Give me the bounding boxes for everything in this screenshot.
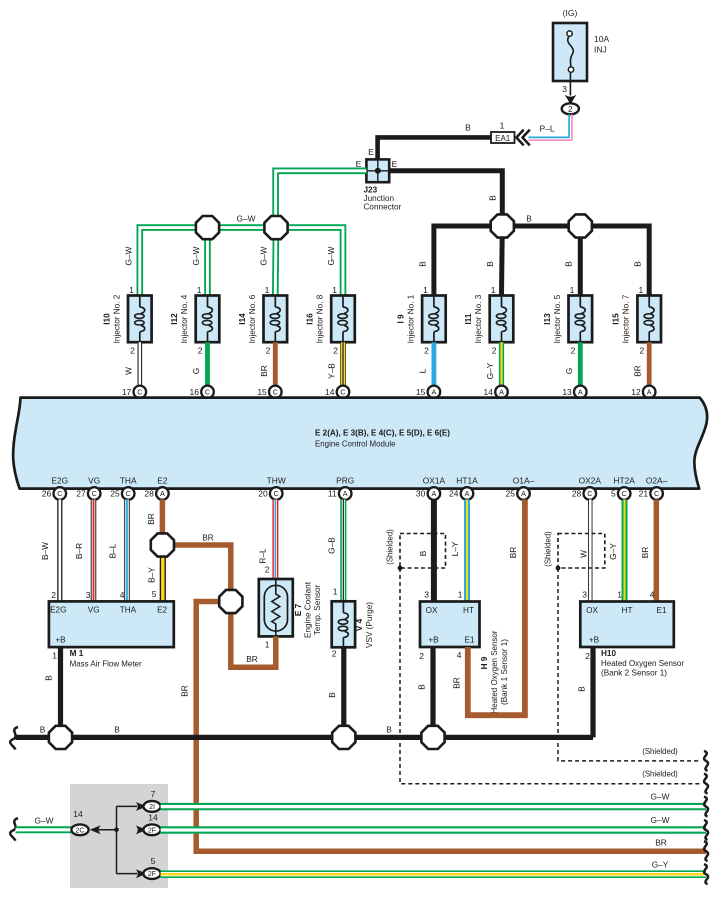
svg-text:16: 16 (190, 387, 200, 397)
heated oxygen sensor H9 box (419, 590, 479, 662)
wire G-Y from 2F to right edge (161, 860, 706, 875)
svg-text:1: 1 (129, 285, 134, 295)
svg-text:27: 27 (76, 489, 86, 499)
svg-text:G–W: G–W (237, 214, 256, 224)
ECM pin E2G label (51, 476, 68, 486)
label #1 (429, 400, 439, 410)
shield drain dashed wire H9 (400, 568, 700, 784)
svg-text:15: 15 (257, 387, 267, 397)
arrow down into connector 2 (565, 95, 577, 105)
svg-text:+B: +B (428, 636, 439, 645)
svg-text:2C: 2C (76, 827, 85, 834)
svg-text:BR: BR (246, 654, 258, 664)
svg-text:INJ: INJ (594, 45, 607, 55)
svg-text:VSV (Purge): VSV (Purge) (365, 602, 374, 648)
svg-text:2: 2 (265, 565, 270, 575)
svg-text:E1: E1 (464, 636, 474, 645)
svg-text:24: 24 (449, 489, 459, 499)
ground bus wire B (16, 725, 594, 738)
svg-text:C: C (57, 489, 62, 498)
svg-text:HT: HT (622, 606, 633, 615)
ECM pin THA label (120, 476, 137, 486)
svg-text:A: A (432, 489, 437, 498)
label #5 (576, 400, 586, 410)
svg-text:C: C (587, 489, 592, 498)
svg-text:H 9: H 9 (480, 656, 489, 669)
VSV purge valve V4 (332, 601, 355, 658)
svg-text:BR: BR (452, 677, 462, 689)
wire B OX1A to H9 pin 3 (418, 500, 434, 602)
injector I15 (Injector No. 7) (612, 285, 661, 356)
shield drain dashed wire H10 (558, 568, 700, 761)
ECM pin HT1A connector circle 24(A) (449, 487, 473, 500)
ECM pin OX1A connector circle 30(A) (416, 487, 440, 500)
svg-text:3: 3 (424, 590, 429, 600)
wire BR long drop to right edge (196, 838, 706, 852)
svg-text:2: 2 (332, 649, 337, 659)
svg-text:Temp. Sensor: Temp. Sensor (313, 584, 322, 635)
ECM pin HT1A label (456, 476, 478, 486)
label G-W (259, 246, 269, 265)
svg-text:11: 11 (328, 489, 337, 499)
svg-text:BR: BR (633, 365, 643, 377)
heated oxygen sensor H10 box (580, 590, 674, 662)
break symbol right end shielded 2 (704, 774, 708, 794)
svg-text:2: 2 (198, 346, 203, 356)
label #7 (644, 400, 654, 410)
svg-text:THW: THW (267, 476, 286, 486)
svg-text:E2: E2 (157, 606, 167, 615)
svg-text:2: 2 (639, 346, 644, 356)
svg-text:2: 2 (571, 346, 576, 356)
engine control module band (13, 398, 707, 489)
svg-text:17: 17 (122, 387, 132, 397)
svg-text:M 1: M 1 (70, 649, 84, 658)
svg-text:BR: BR (259, 365, 269, 377)
svg-text:A: A (647, 388, 652, 397)
svg-text:BR: BR (508, 547, 518, 559)
svg-text:14: 14 (148, 813, 158, 823)
svg-text:B: B (526, 214, 532, 224)
connector 2 (oval) (562, 103, 579, 114)
svg-text:2: 2 (568, 105, 573, 114)
wire G-W left to connector 2C (16, 816, 72, 830)
ECM pin OX1A label (423, 476, 446, 486)
wire BR node R2 down and to E7 pin 1 (231, 602, 276, 668)
svg-text:(Shielded): (Shielded) (642, 747, 678, 756)
injector I14 (Injector No. 6) (238, 285, 287, 356)
break symbol left end of G-W wire (10, 818, 18, 841)
svg-text:(Bank 2 Sensor 1): (Bank 2 Sensor 1) (601, 669, 667, 678)
shield box around OX1A wire (386, 529, 446, 568)
svg-text:E2: E2 (157, 476, 168, 486)
svg-text:Heated Oxygen Sensor: Heated Oxygen Sensor (601, 659, 684, 668)
svg-text:I11: I11 (464, 313, 473, 324)
injector I10 (Injector No. 2) (102, 285, 151, 356)
node N3 (octagon junction) (421, 726, 444, 749)
arrow left into connector 2C (90, 825, 117, 834)
ECM pin E2 label (157, 476, 168, 486)
svg-text:L–Y: L–Y (450, 541, 460, 556)
svg-text:E 2(A), E 3(B), E 4(C), E 5(D): E 2(A), E 3(B), E 4(C), E 5(D), E 6(E) (315, 428, 450, 438)
svg-text:5: 5 (151, 856, 156, 866)
svg-text:A: A (160, 489, 165, 498)
svg-text:B: B (465, 123, 471, 133)
svg-text:Engine Coolant: Engine Coolant (304, 581, 313, 638)
svg-text:A: A (465, 489, 470, 498)
svg-text:B: B (114, 725, 120, 735)
svg-text:C: C (340, 388, 345, 397)
shield box around OX2A wire (544, 531, 605, 568)
svg-text:B: B (577, 686, 587, 692)
svg-text:VG: VG (88, 476, 100, 486)
svg-text:12: 12 (631, 387, 641, 397)
wire P-L from connector 2 to EA1 (529, 114, 572, 140)
svg-text:B: B (418, 261, 428, 267)
svg-text:2: 2 (266, 346, 271, 356)
svg-text:E2G: E2G (50, 606, 66, 615)
ECM pin THW label (267, 476, 286, 486)
svg-text:C: C (126, 489, 131, 498)
svg-text:I16: I16 (306, 313, 315, 325)
arrow right into connector 2F pin 5 (136, 869, 147, 878)
svg-text:1: 1 (458, 590, 463, 600)
wire B M1 pin 1 to ground bus node N1 (44, 647, 61, 737)
svg-text:THA: THA (120, 606, 137, 615)
node R1 (octagon junction) (151, 533, 174, 556)
svg-text:OX: OX (426, 606, 438, 615)
svg-text:Injector No. 7: Injector No. 7 (622, 294, 631, 343)
shield drain dot H10 (556, 566, 561, 571)
svg-text:I 9: I 9 (396, 314, 405, 324)
ECM pin #6 connector circle 15(C) (257, 386, 281, 399)
svg-text:2: 2 (585, 651, 590, 661)
svg-text:14: 14 (484, 387, 494, 397)
wire G-Y HT2A to H10 pin 1 (608, 500, 625, 602)
double chevron into EA1 (516, 130, 529, 146)
svg-text:(Shielded): (Shielded) (544, 531, 553, 567)
svg-text:OX1A: OX1A (423, 476, 446, 486)
break symbol right end G-W 1 (704, 797, 708, 817)
wire BR node R1 to node R2 (162, 533, 230, 602)
svg-text:A: A (521, 489, 526, 498)
wire B node B1 to injector No.1 (418, 226, 503, 296)
ECM pin O1A– label (513, 476, 535, 486)
ECM pin O2A– connector circle 21(C) (639, 487, 663, 500)
svg-text:E: E (392, 159, 398, 169)
svg-text:G: G (191, 368, 201, 374)
svg-text:G–Y: G–Y (608, 543, 618, 560)
svg-text:2F: 2F (148, 827, 156, 834)
wire G-B PRG to V4 pin 1 (327, 500, 344, 602)
break symbol right end BR (704, 841, 708, 861)
svg-text:Heated Oxygen Sensor: Heated Oxygen Sensor (490, 630, 499, 713)
wire BR H9 pin 4 to O1A- (452, 500, 525, 716)
svg-text:G–W: G–W (651, 792, 670, 802)
svg-text:Injector No. 6: Injector No. 6 (248, 294, 257, 343)
node B2 (octagon junction) (569, 214, 592, 237)
wire BR E2 to node R1 (146, 500, 162, 546)
svg-text:C: C (92, 489, 97, 498)
wire B J23 to elbow and down to node B1 (389, 171, 502, 226)
engine coolant temp sensor E7 (259, 579, 293, 650)
ECM pin HT2A connector circle 5(C) (611, 487, 631, 500)
node G1 (octagon junction) (196, 216, 219, 239)
svg-text:G–W: G–W (326, 246, 336, 265)
svg-text:26: 26 (42, 489, 52, 499)
svg-text:1: 1 (617, 590, 622, 600)
svg-text:Engine Control Module: Engine Control Module (315, 439, 396, 449)
svg-text:B–R: B–R (74, 543, 84, 559)
svg-text:1: 1 (500, 121, 505, 131)
svg-text:W: W (123, 367, 133, 375)
wire G-W J23 to elbow and down to node G2 (276, 171, 367, 228)
break symbol right end G-Y (704, 864, 708, 884)
wire R-L THW to E7 pin 2 (258, 500, 276, 580)
svg-text:2: 2 (51, 590, 56, 600)
svg-text:Injector No. 8: Injector No. 8 (316, 294, 325, 343)
svg-text:(Bank 1 Sensor 1): (Bank 1 Sensor 1) (500, 639, 509, 705)
connector 2F pin 14 (143, 813, 160, 836)
wire BR injector I14 pin 2 to ECM (259, 342, 276, 386)
wire B-R VG to M1 pin 3 (74, 500, 94, 602)
ECM pin #4 connector circle 16(C) (190, 386, 214, 399)
arrow right into connector 2F pin 14 (136, 825, 147, 834)
svg-text:O1A–: O1A– (513, 476, 535, 486)
svg-text:4: 4 (650, 590, 655, 600)
svg-text:(Shielded): (Shielded) (386, 529, 395, 565)
svg-text:1: 1 (423, 285, 428, 295)
ECM pin E2 connector circle 28(A) (144, 487, 168, 500)
svg-text:30: 30 (416, 489, 426, 499)
wire G-W from 2F to right edge (161, 815, 706, 830)
svg-text:P–L: P–L (539, 124, 554, 134)
svg-text:R–L: R–L (258, 548, 268, 564)
svg-text:1: 1 (491, 285, 496, 295)
svg-text:(Shielded): (Shielded) (642, 770, 678, 779)
ECM pin #8 connector circle 14(C) (325, 386, 349, 399)
svg-text:G–W: G–W (259, 246, 269, 265)
wire G-W node G2 down to injector No.6 (272, 228, 279, 296)
svg-text:1: 1 (265, 640, 270, 650)
svg-text:B: B (44, 675, 54, 681)
svg-text:BR: BR (202, 533, 214, 543)
connector 2I pin 7 (143, 789, 160, 812)
svg-text:13: 13 (562, 387, 572, 397)
ECM pin HT2A label (613, 476, 635, 486)
svg-text:21: 21 (639, 489, 649, 499)
fuse F1 10A INJ (553, 8, 609, 81)
svg-text:14: 14 (325, 387, 335, 397)
wire B node B2 down to injector No.5 (564, 226, 581, 296)
svg-text:B: B (488, 195, 498, 201)
svg-text:C: C (273, 388, 278, 397)
wire W OX2A to H10 pin 3 (579, 500, 591, 602)
svg-text:B: B (417, 684, 427, 690)
label #3 (497, 400, 507, 410)
wire B from EA1 to J23 (378, 123, 491, 160)
svg-text:C: C (274, 489, 279, 498)
svg-text:1: 1 (265, 285, 270, 295)
svg-text:Injector No. 5: Injector No. 5 (553, 294, 562, 343)
wire B-L THA to M1 pin 4 (108, 500, 128, 602)
connector EA1 (491, 121, 515, 144)
ECM pin THA connector circle 25(C) (110, 487, 134, 500)
label E7 Engine Coolant Temp. Sensor (294, 581, 322, 638)
wire G-W from 2I to right edge (161, 792, 706, 807)
ECM pin #7 connector circle 12(A) (631, 386, 655, 399)
break symbol left end of ground bus (10, 727, 18, 750)
connector block branch lines (117, 806, 138, 873)
svg-text:H10: H10 (601, 649, 616, 658)
wire G-W bus node G2 to node G1 (208, 224, 277, 231)
svg-text:1: 1 (332, 285, 337, 295)
svg-text:I15: I15 (612, 313, 621, 325)
ECM pin O2A– label (646, 476, 668, 486)
label G-W (237, 214, 256, 224)
svg-text:VG: VG (88, 606, 100, 615)
svg-text:3: 3 (582, 590, 587, 600)
svg-text:2: 2 (333, 346, 338, 356)
label H10 Heated Oxygen Sensor (Bank 2 Sensor 1) (601, 649, 684, 678)
svg-text:OX: OX (586, 606, 598, 615)
svg-text:HT2A: HT2A (613, 476, 635, 486)
svg-text:BR: BR (655, 838, 667, 848)
wire G injector I12 pin 2 to ECM (191, 342, 208, 386)
svg-text:BR: BR (146, 513, 156, 525)
wire fuse to connector 2, pin 3 (562, 72, 570, 95)
ECM pin #3 connector circle 14(A) (484, 386, 508, 399)
wire G-W node G2 to injector No.8 (276, 228, 343, 296)
svg-text:OX2A: OX2A (579, 476, 602, 486)
node R2 (octagon junction) (219, 590, 242, 613)
svg-text:THA: THA (120, 476, 137, 486)
svg-text:A: A (432, 388, 437, 397)
ECM pin O1A– connector circle 25(A) (506, 487, 530, 500)
svg-text:4: 4 (120, 590, 125, 600)
wire B-Y node R1 to M1 pin 5 (147, 545, 163, 601)
svg-text:2F: 2F (148, 871, 156, 878)
label #4 (203, 400, 213, 410)
svg-text:15: 15 (416, 387, 426, 397)
svg-text:W: W (579, 550, 589, 558)
svg-text:G–W: G–W (35, 816, 54, 826)
node N1 (octagon junction) (49, 726, 72, 749)
svg-text:G–W: G–W (124, 246, 134, 265)
shield drain dot H9 (398, 566, 403, 571)
svg-text:E: E (368, 147, 374, 157)
wire G injector I13 pin 2 to ECM (564, 342, 581, 386)
svg-text:1: 1 (52, 651, 57, 661)
label J23 Junction Connector (364, 186, 402, 212)
svg-text:C: C (622, 489, 627, 498)
wire BR node R2 left to long drop (180, 602, 231, 852)
svg-text:5: 5 (611, 489, 616, 499)
svg-text:25: 25 (506, 489, 516, 499)
svg-text:E1: E1 (656, 606, 666, 615)
svg-text:B–L: B–L (108, 543, 118, 558)
svg-text:HT: HT (463, 606, 474, 615)
svg-text:2: 2 (130, 346, 135, 356)
svg-text:B–W: B–W (40, 542, 50, 560)
label H9 Heated Oxygen Sensor (Bank 1 Sensor 1) (480, 630, 509, 713)
ECM pin #5 connector circle 13(A) (562, 386, 586, 399)
svg-text:I10: I10 (102, 313, 111, 325)
wire G-W node G1 down to injector No.4 (204, 228, 211, 296)
svg-text:E 7: E 7 (294, 603, 303, 616)
junction dot in connector block (114, 828, 119, 833)
svg-text:2: 2 (492, 346, 497, 356)
injector I12 (Injector No. 4) (170, 285, 219, 356)
label Engine Control Module (315, 439, 396, 449)
svg-text:PRG: PRG (336, 476, 354, 486)
svg-text:Injector No. 4: Injector No. 4 (180, 294, 189, 343)
label V4 VSV (Purge) (355, 602, 374, 648)
break symbol right end shielded 1 (704, 751, 708, 771)
injector I16 (Injector No. 8) (306, 285, 355, 356)
svg-text:28: 28 (144, 489, 154, 499)
svg-text:5: 5 (152, 589, 157, 599)
ECM pin THW connector circle 20(C) (258, 487, 282, 500)
label ECM connectors (315, 428, 450, 438)
svg-text:4: 4 (457, 650, 462, 660)
ECM pin OX2A connector circle 28(C) (572, 487, 596, 500)
ECM pin PRG label (336, 476, 354, 486)
wire G–Y injector I11 pin 2 to ECM (485, 342, 502, 386)
svg-text:BR: BR (640, 547, 650, 559)
svg-text:A: A (578, 388, 583, 397)
connector 2C pin 14 (71, 809, 88, 835)
svg-text:C: C (205, 388, 210, 397)
svg-text:+B: +B (589, 636, 600, 645)
svg-text:A: A (343, 489, 348, 498)
gray connector block background (70, 784, 168, 888)
svg-text:Mass Air Flow Meter: Mass Air Flow Meter (70, 660, 142, 669)
wire B H9 pin 2 to ground bus node N3 (417, 647, 434, 737)
svg-text:20: 20 (258, 489, 268, 499)
svg-text:I14: I14 (238, 313, 247, 325)
ECM pin OX2A label (579, 476, 602, 486)
connector 2F pin 5 (143, 856, 160, 879)
svg-text:10A: 10A (594, 34, 609, 44)
svg-text:B: B (327, 692, 337, 698)
svg-text:C: C (654, 489, 659, 498)
wire BR O2A- to H10 pin 4 (640, 500, 656, 602)
svg-text:1: 1 (570, 285, 575, 295)
label G-W (326, 246, 336, 265)
label #6 (271, 400, 281, 410)
svg-text:B: B (633, 261, 643, 267)
svg-text:I12: I12 (170, 313, 179, 325)
svg-text:G–Y: G–Y (652, 860, 669, 870)
svg-text:28: 28 (572, 489, 582, 499)
svg-text:B–Y: B–Y (147, 567, 157, 583)
svg-text:C: C (137, 388, 142, 397)
ECM pin E2G connector circle 26(C) (42, 487, 66, 500)
svg-text:B: B (418, 550, 428, 556)
svg-text:E2G: E2G (51, 476, 68, 486)
svg-text:Injector No. 3: Injector No. 3 (474, 294, 483, 343)
injector I9 (Injector No. 1) (396, 285, 445, 356)
svg-text:HT1A: HT1A (456, 476, 478, 486)
svg-text:1: 1 (333, 587, 338, 597)
svg-text:G–W: G–W (651, 815, 670, 825)
wire Y–B injector I16 pin 2 to ECM (327, 342, 344, 386)
svg-text:2: 2 (424, 346, 429, 356)
svg-text:G–B: G–B (327, 537, 337, 554)
svg-text:G–Y: G–Y (485, 362, 495, 379)
ECM pin #2 connector circle 17(C) (122, 386, 146, 399)
